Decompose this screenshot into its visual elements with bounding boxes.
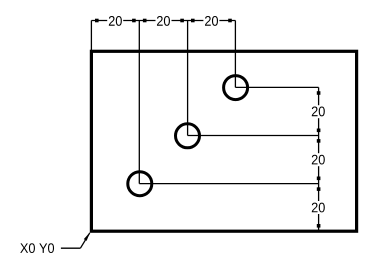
center line hole bottom-left horizontal [139,183,318,185]
right dimension tick boxes [317,91,321,95]
right dimension line segments [318,87,320,105]
top dimension line segments [91,20,107,22]
right dimension label 20 (bottom) [312,203,325,213]
origin label X0 Y0 [20,243,54,253]
top dimension label 20 (second) [157,16,170,26]
right dimension label 20 (top) [312,107,325,117]
top dimension label 20 (first) [109,16,122,26]
center line hole bottom-left vertical [138,21,140,184]
plate outline [91,51,356,231]
leader line diagonal [80,233,89,248]
center line hole top-right horizontal [235,86,318,88]
hole bottom-left [128,172,152,196]
center line hole middle vertical [187,21,189,136]
top dimension tick boxes [95,19,99,23]
hole top-right [224,76,248,100]
center line hole top-right vertical [234,21,236,88]
leader arrowhead [84,232,90,241]
center line hole middle horizontal [188,135,319,137]
hole middle [176,124,200,148]
right dimension label 20 (middle) [312,155,325,165]
extension line left edge [90,21,92,51]
top dimension label 20 (third) [205,16,218,26]
leader line horizontal [61,247,81,249]
